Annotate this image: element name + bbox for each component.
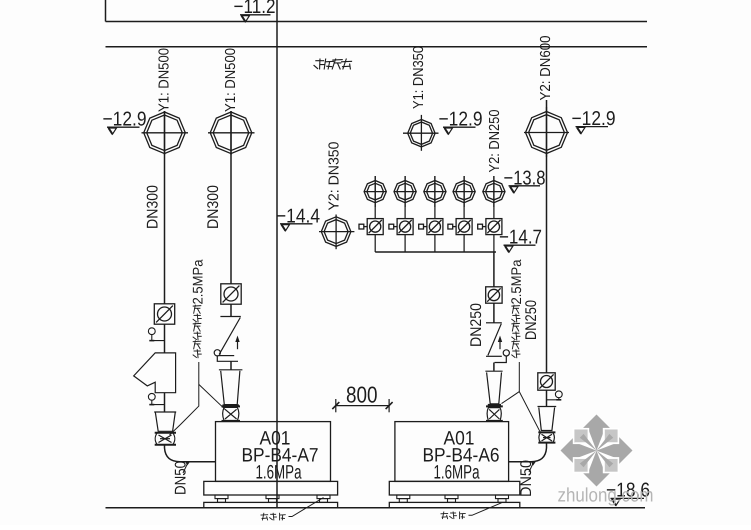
leader arrow DN50 left <box>183 464 188 474</box>
wire right pipe mid <box>546 390 548 406</box>
check valve pipe2 <box>214 317 241 362</box>
svg-text:800: 800 <box>346 382 378 408</box>
branch 3 lower stub <box>434 235 436 252</box>
small valve branch 5 <box>483 176 505 207</box>
svg-text:Y1: DN500: Y1: DN500 <box>157 48 173 112</box>
flexible rubber joint pipe1 <box>155 433 176 445</box>
note rubber joint 2.5MPa (left) <box>193 305 202 359</box>
pressure gauge right pipe <box>547 391 563 400</box>
svg-text:zhulong.com: zhulong.com <box>558 485 654 507</box>
svg-text:DN250: DN250 <box>523 300 540 340</box>
room label 冷冻机房 (pseudo glyphs) <box>313 59 353 70</box>
svg-text:Y1: DN500: Y1: DN500 <box>223 48 239 112</box>
svg-text:Y1: DN350: Y1: DN350 <box>411 46 427 109</box>
svg-text:DN50: DN50 <box>173 461 190 495</box>
watermark logo <box>561 415 633 487</box>
branch 1 lower stub <box>374 235 376 252</box>
solenoid valve square branch 4 <box>448 219 472 235</box>
pump1 label text <box>242 428 319 484</box>
wire drop pipe mid <box>493 303 495 323</box>
elevation -14.4 <box>276 205 320 231</box>
pressure gauge pipe1 lower <box>148 393 164 404</box>
svg-text:Y2: DN250: Y2: DN250 <box>487 110 503 173</box>
flexible rubber joint pipe2 <box>222 406 241 421</box>
solenoid valve square branch 5 <box>478 219 502 235</box>
label 减震器 left (pseudo glyphs) + leader <box>261 498 324 521</box>
branch 4 stub <box>463 176 465 219</box>
solenoid valve square branch 3 <box>419 219 443 235</box>
elevation -12.9 left <box>103 109 147 135</box>
valve Y2 DN350 <box>319 215 354 250</box>
wire pipe2 mid <box>230 304 232 316</box>
pump2 isolator foot 1 <box>397 495 410 502</box>
svg-text:2.5MPa: 2.5MPa <box>508 259 524 304</box>
wire pipe1 upper <box>164 111 166 304</box>
branch 5 lower stub <box>493 235 495 252</box>
elevation -18.6 <box>606 480 650 506</box>
butterfly valve square pipe2 <box>221 284 241 304</box>
small valve branch 4 <box>453 176 475 207</box>
note rubber joint 2.5MPa (right) <box>511 305 520 359</box>
butterfly valve square pipe1 <box>154 304 174 324</box>
ground line <box>106 507 646 509</box>
pump2 base frame <box>389 481 520 495</box>
svg-text:1.6MPa: 1.6MPa <box>256 462 302 484</box>
valve Y1 DN350 <box>403 115 439 151</box>
pump unit A01 BP-B4-A7 body <box>216 422 331 482</box>
pump1 base frame <box>204 481 338 495</box>
manifold header <box>375 251 496 253</box>
wire pipe2 below check valve <box>230 361 232 369</box>
pump unit A01 BP-B4-A6 body <box>395 422 509 482</box>
valve Y1 DN500 #1 <box>142 111 189 155</box>
wire pipe1 mid <box>164 324 166 353</box>
elbow right pipe to pump2 <box>509 443 547 462</box>
elevation -12.9 middle <box>439 109 483 135</box>
leader right note fork <box>502 362 520 404</box>
reducer cone pipe1 <box>154 412 176 431</box>
strainer pipe1 <box>134 353 176 393</box>
label 减震器 right (pseudo glyphs) + leader <box>441 503 502 519</box>
elevation -12.9 right <box>572 108 616 134</box>
pump1 isolator foot 3 <box>317 495 330 502</box>
svg-text:1.6MPa: 1.6MPa <box>434 462 480 484</box>
pump1 isolator foot 1 <box>215 495 228 502</box>
wire pipe1 below strainer <box>164 393 166 412</box>
branch 2 stub <box>404 176 406 219</box>
branch 5 stub <box>493 176 495 219</box>
pump1 isolator foot 2 <box>266 495 279 502</box>
elbow pipe1 to pump1 <box>165 445 216 462</box>
check valve drop pipe <box>486 323 509 363</box>
svg-text:DN300: DN300 <box>205 185 222 229</box>
branch 1 stub <box>374 176 376 219</box>
branch 2 lower stub <box>404 235 406 252</box>
small valve branch 1 <box>364 176 386 207</box>
elevation -11.2 <box>234 0 276 22</box>
valve Y1 DN500 #2 <box>208 111 255 155</box>
valve Y2 DN600 <box>524 107 569 157</box>
elevation -14.7 <box>499 227 542 253</box>
svg-text:Y2: DN600: Y2: DN600 <box>538 36 554 101</box>
branch 3 stub <box>434 176 436 219</box>
leader arrow DN50 right <box>529 464 533 473</box>
leader left note fork <box>170 362 199 435</box>
svg-text:DN300: DN300 <box>145 185 162 229</box>
wire right pipe upper <box>546 100 548 373</box>
flexible rubber joint right pipe <box>538 432 555 442</box>
pump1 inertia slab <box>204 502 338 507</box>
butterfly valve square drop pipe <box>486 287 502 303</box>
wall line lower <box>106 46 648 48</box>
small valve branch 2 <box>394 176 416 207</box>
reducer cone drop pipe <box>485 371 502 405</box>
pressure gauge pipe1 upper <box>148 328 164 341</box>
elevation -13.8 <box>504 168 546 193</box>
wall line upper <box>106 21 648 23</box>
butterfly valve square right pipe <box>538 373 555 390</box>
wall corner vertical <box>105 0 107 22</box>
dimension 800 <box>332 399 392 412</box>
solenoid valve square branch 2 <box>389 219 413 235</box>
pump2 inertia slab <box>389 502 520 507</box>
branch 4 lower stub <box>463 235 465 252</box>
small valve branch 3 <box>424 176 446 207</box>
reducer cone right pipe <box>538 407 557 431</box>
svg-text:DN250: DN250 <box>468 303 485 347</box>
pump2 isolator foot 2 <box>445 495 458 502</box>
wire drop pipe below check valve <box>493 363 495 371</box>
center column line <box>276 0 278 508</box>
wire drop pipe upper <box>493 252 495 287</box>
flexible rubber joint drop pipe <box>486 406 503 421</box>
reducer cone pipe2 <box>219 370 243 406</box>
svg-text:2.5MPa: 2.5MPa <box>190 259 206 304</box>
solenoid valve square branch 1 <box>359 219 383 235</box>
wire pipe2 upper <box>230 111 232 284</box>
svg-text:Y2: DN350: Y2: DN350 <box>326 142 342 211</box>
pump2 isolator foot 3 <box>496 495 509 502</box>
pump2 label text <box>423 428 500 484</box>
